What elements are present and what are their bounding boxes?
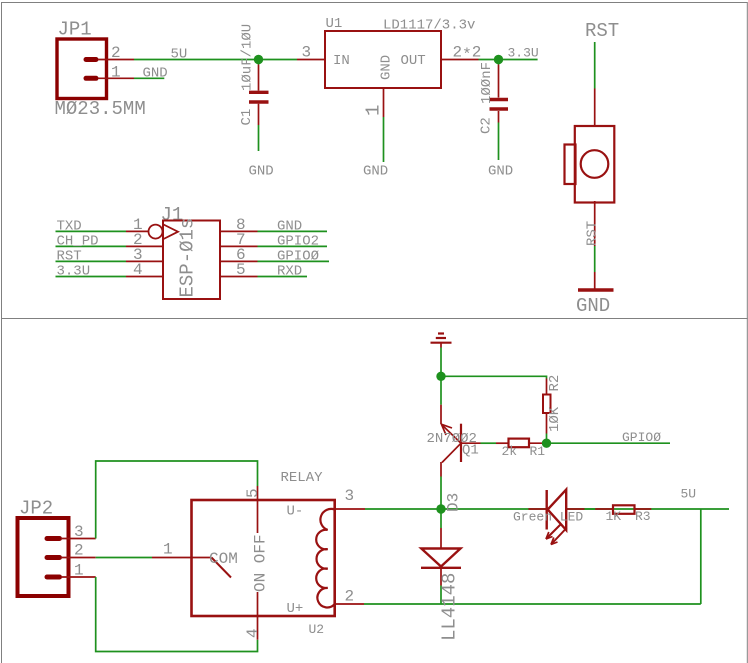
svg-text:LL4148: LL4148 — [439, 573, 461, 641]
svg-text:C2: C2 — [479, 117, 495, 134]
resistor R3 — [606, 505, 651, 524]
J1 pin 5 — [220, 261, 258, 279]
J1 pin 1 — [126, 216, 149, 234]
capacitor C1 — [239, 24, 269, 126]
wire LED to R3 — [585, 508, 614, 510]
node junction at Q1 drain net — [436, 372, 445, 381]
wire R2 to node — [546, 413, 548, 443]
svg-text:ON OFF: ON OFF — [252, 534, 270, 592]
svg-text:U+: U+ — [287, 601, 304, 617]
svg-text:GND: GND — [143, 65, 168, 81]
svg-text:D3: D3 — [445, 493, 463, 512]
J1 pin 7 — [220, 231, 258, 249]
svg-text:U-: U- — [287, 504, 304, 520]
connector JP2 — [18, 498, 69, 597]
U1 pin 1 GND — [363, 88, 385, 117]
ground earth symbol — [431, 334, 452, 348]
module J1 ESP-01 — [161, 204, 221, 299]
svg-text:GPIOØ: GPIOØ — [622, 430, 661, 445]
svg-text:2*2: 2*2 — [453, 44, 482, 65]
svg-text:3: 3 — [345, 487, 355, 505]
svg-text:GND: GND — [379, 55, 395, 80]
svg-text:2: 2 — [345, 588, 355, 606]
svg-text:MØ23.5MM: MØ23.5MM — [55, 98, 146, 120]
svg-text:GND: GND — [249, 164, 274, 180]
svg-text:5U: 5U — [171, 46, 188, 62]
U1 pin 2 OUT — [441, 44, 481, 65]
wire net RST left — [56, 249, 127, 265]
svg-text:1ØØnF: 1ØØnF — [479, 62, 495, 104]
wire U1 pin1 to GND — [363, 117, 388, 180]
svg-text:3.3U: 3.3U — [508, 46, 539, 61]
svg-text:GND: GND — [277, 219, 302, 235]
wire net RXD — [258, 264, 308, 280]
wire R1 to node — [529, 442, 547, 444]
svg-text:ESP-Ø1s: ESP-Ø1s — [177, 218, 199, 298]
svg-text:R3: R3 — [635, 509, 651, 524]
switch S1 reset button — [565, 126, 615, 203]
wire net 5V rail — [365, 487, 729, 510]
svg-text:2k: 2k — [502, 444, 518, 459]
svg-text:4: 4 — [133, 261, 143, 279]
svg-text:1: 1 — [363, 105, 385, 116]
svg-text:1: 1 — [111, 64, 121, 82]
svg-text:GPIOØ: GPIOØ — [277, 249, 319, 265]
wire RST to switch — [594, 42, 596, 126]
wire net 5V — [134, 46, 297, 62]
wire switch to GND — [585, 201, 601, 289]
svg-text:GND: GND — [488, 164, 513, 180]
relay coil — [316, 509, 335, 608]
svg-text:3.3U: 3.3U — [57, 264, 91, 280]
relay U2 — [192, 470, 335, 637]
svg-text:Green LED: Green LED — [513, 510, 583, 525]
svg-text:GND: GND — [576, 295, 610, 317]
diode D3 — [421, 513, 461, 641]
svg-text:COM: COM — [209, 550, 238, 568]
resistor R1 — [502, 439, 546, 459]
relay pin 4 — [244, 592, 262, 640]
svg-text:5: 5 — [236, 261, 246, 279]
wire net GPIO0 bottom — [547, 430, 671, 445]
LED LED1 green — [513, 490, 585, 545]
relay pin 5 — [244, 486, 262, 533]
wire JP2 pin2 to relay COM — [96, 557, 152, 559]
relay pin 2 V+ — [335, 588, 364, 606]
ground symbol GND below switch — [576, 290, 614, 317]
U1 pin 3 IN — [297, 44, 325, 62]
wire net 3.3V — [479, 46, 539, 61]
svg-text:TXD: TXD — [57, 219, 82, 235]
J1 pin 3 — [126, 246, 163, 264]
svg-text:1K: 1K — [606, 509, 622, 524]
capacitor C2 — [479, 60, 509, 135]
wire C1 to GND — [249, 125, 274, 180]
wire R3 to 5V — [635, 508, 652, 510]
J1 pin 1 bubble and clock — [149, 225, 179, 240]
svg-text:4: 4 — [244, 628, 262, 638]
svg-text:U1: U1 — [326, 16, 343, 32]
svg-text:RST: RST — [585, 221, 601, 246]
JP2 pin 1 — [61, 562, 96, 580]
svg-text:2: 2 — [111, 44, 121, 62]
svg-text:RELAY: RELAY — [281, 470, 324, 486]
svg-text:1: 1 — [163, 541, 173, 559]
svg-text:RST: RST — [57, 249, 82, 265]
svg-text:3: 3 — [74, 523, 84, 541]
svg-text:1ØuF/1ØU: 1ØuF/1ØU — [240, 24, 256, 91]
wire net TXD — [56, 219, 127, 235]
wire JP2 pin3 to relay pin5 — [96, 461, 258, 539]
node junction at D3 on 5V rail — [436, 493, 462, 514]
svg-text:5: 5 — [244, 488, 262, 498]
wire Q1 source down — [440, 462, 442, 505]
JP2 pin 3 — [61, 523, 96, 541]
relay pin 3 V- — [335, 487, 365, 509]
wire net CH_PD — [56, 234, 127, 250]
wire bottom rail — [364, 603, 701, 605]
regulator U1 — [325, 16, 475, 88]
transistor Q1 — [427, 424, 481, 463]
svg-text:GND: GND — [363, 164, 388, 180]
wire Q1 gate to R1 — [481, 442, 509, 444]
node junction at C1 — [254, 55, 263, 64]
J1 pin 4 — [126, 261, 163, 279]
J1 pin 6 — [220, 246, 258, 264]
node junction R1 R2 GPIO0 — [542, 439, 551, 448]
wire 5V rail right drop — [700, 509, 702, 604]
svg-text:JP1: JP1 — [58, 19, 92, 41]
wire net GND right — [258, 219, 328, 235]
JP1 pin 2 — [98, 44, 134, 62]
svg-text:CH_PD: CH_PD — [57, 234, 99, 250]
svg-text:IN: IN — [333, 53, 350, 69]
wire earth to junction — [440, 348, 442, 377]
svg-text:OUT: OUT — [401, 53, 426, 69]
J1 pin 2 — [126, 231, 163, 249]
wire net GPIO0 — [258, 249, 330, 265]
svg-text:3: 3 — [302, 44, 312, 62]
wire junction to Q1 drain — [440, 376, 442, 424]
wire C2 to GND — [488, 123, 513, 180]
resistor R2 — [543, 375, 563, 432]
svg-text:5U: 5U — [681, 487, 697, 502]
svg-text:1ØK: 1ØK — [547, 406, 563, 432]
wire net GPIO2 — [258, 234, 328, 250]
JP2 pin 2 — [61, 542, 96, 560]
net label RST top — [585, 20, 619, 42]
wire net 3.3V left — [56, 264, 127, 280]
svg-text:RST: RST — [585, 20, 619, 42]
connector JP1 — [55, 19, 146, 121]
svg-text:GPIO2: GPIO2 — [277, 234, 319, 250]
svg-text:RXD: RXD — [277, 264, 302, 280]
wire net GND stub at JP1 — [134, 65, 168, 81]
JP1 pin 1 — [98, 64, 134, 82]
wire junction to R2 — [441, 376, 547, 394]
svg-text:1: 1 — [74, 562, 84, 580]
svg-text:R2: R2 — [547, 375, 563, 392]
node junction at C2 — [494, 55, 503, 64]
svg-text:U2: U2 — [309, 622, 325, 637]
relay pin 1 COM — [152, 541, 238, 578]
svg-text:Q1: Q1 — [462, 443, 479, 459]
svg-text:2: 2 — [74, 542, 84, 560]
wire JP2 pin1 to relay pin4 — [96, 577, 258, 652]
svg-text:C1: C1 — [239, 109, 255, 126]
J1 pin 8 — [220, 216, 258, 234]
